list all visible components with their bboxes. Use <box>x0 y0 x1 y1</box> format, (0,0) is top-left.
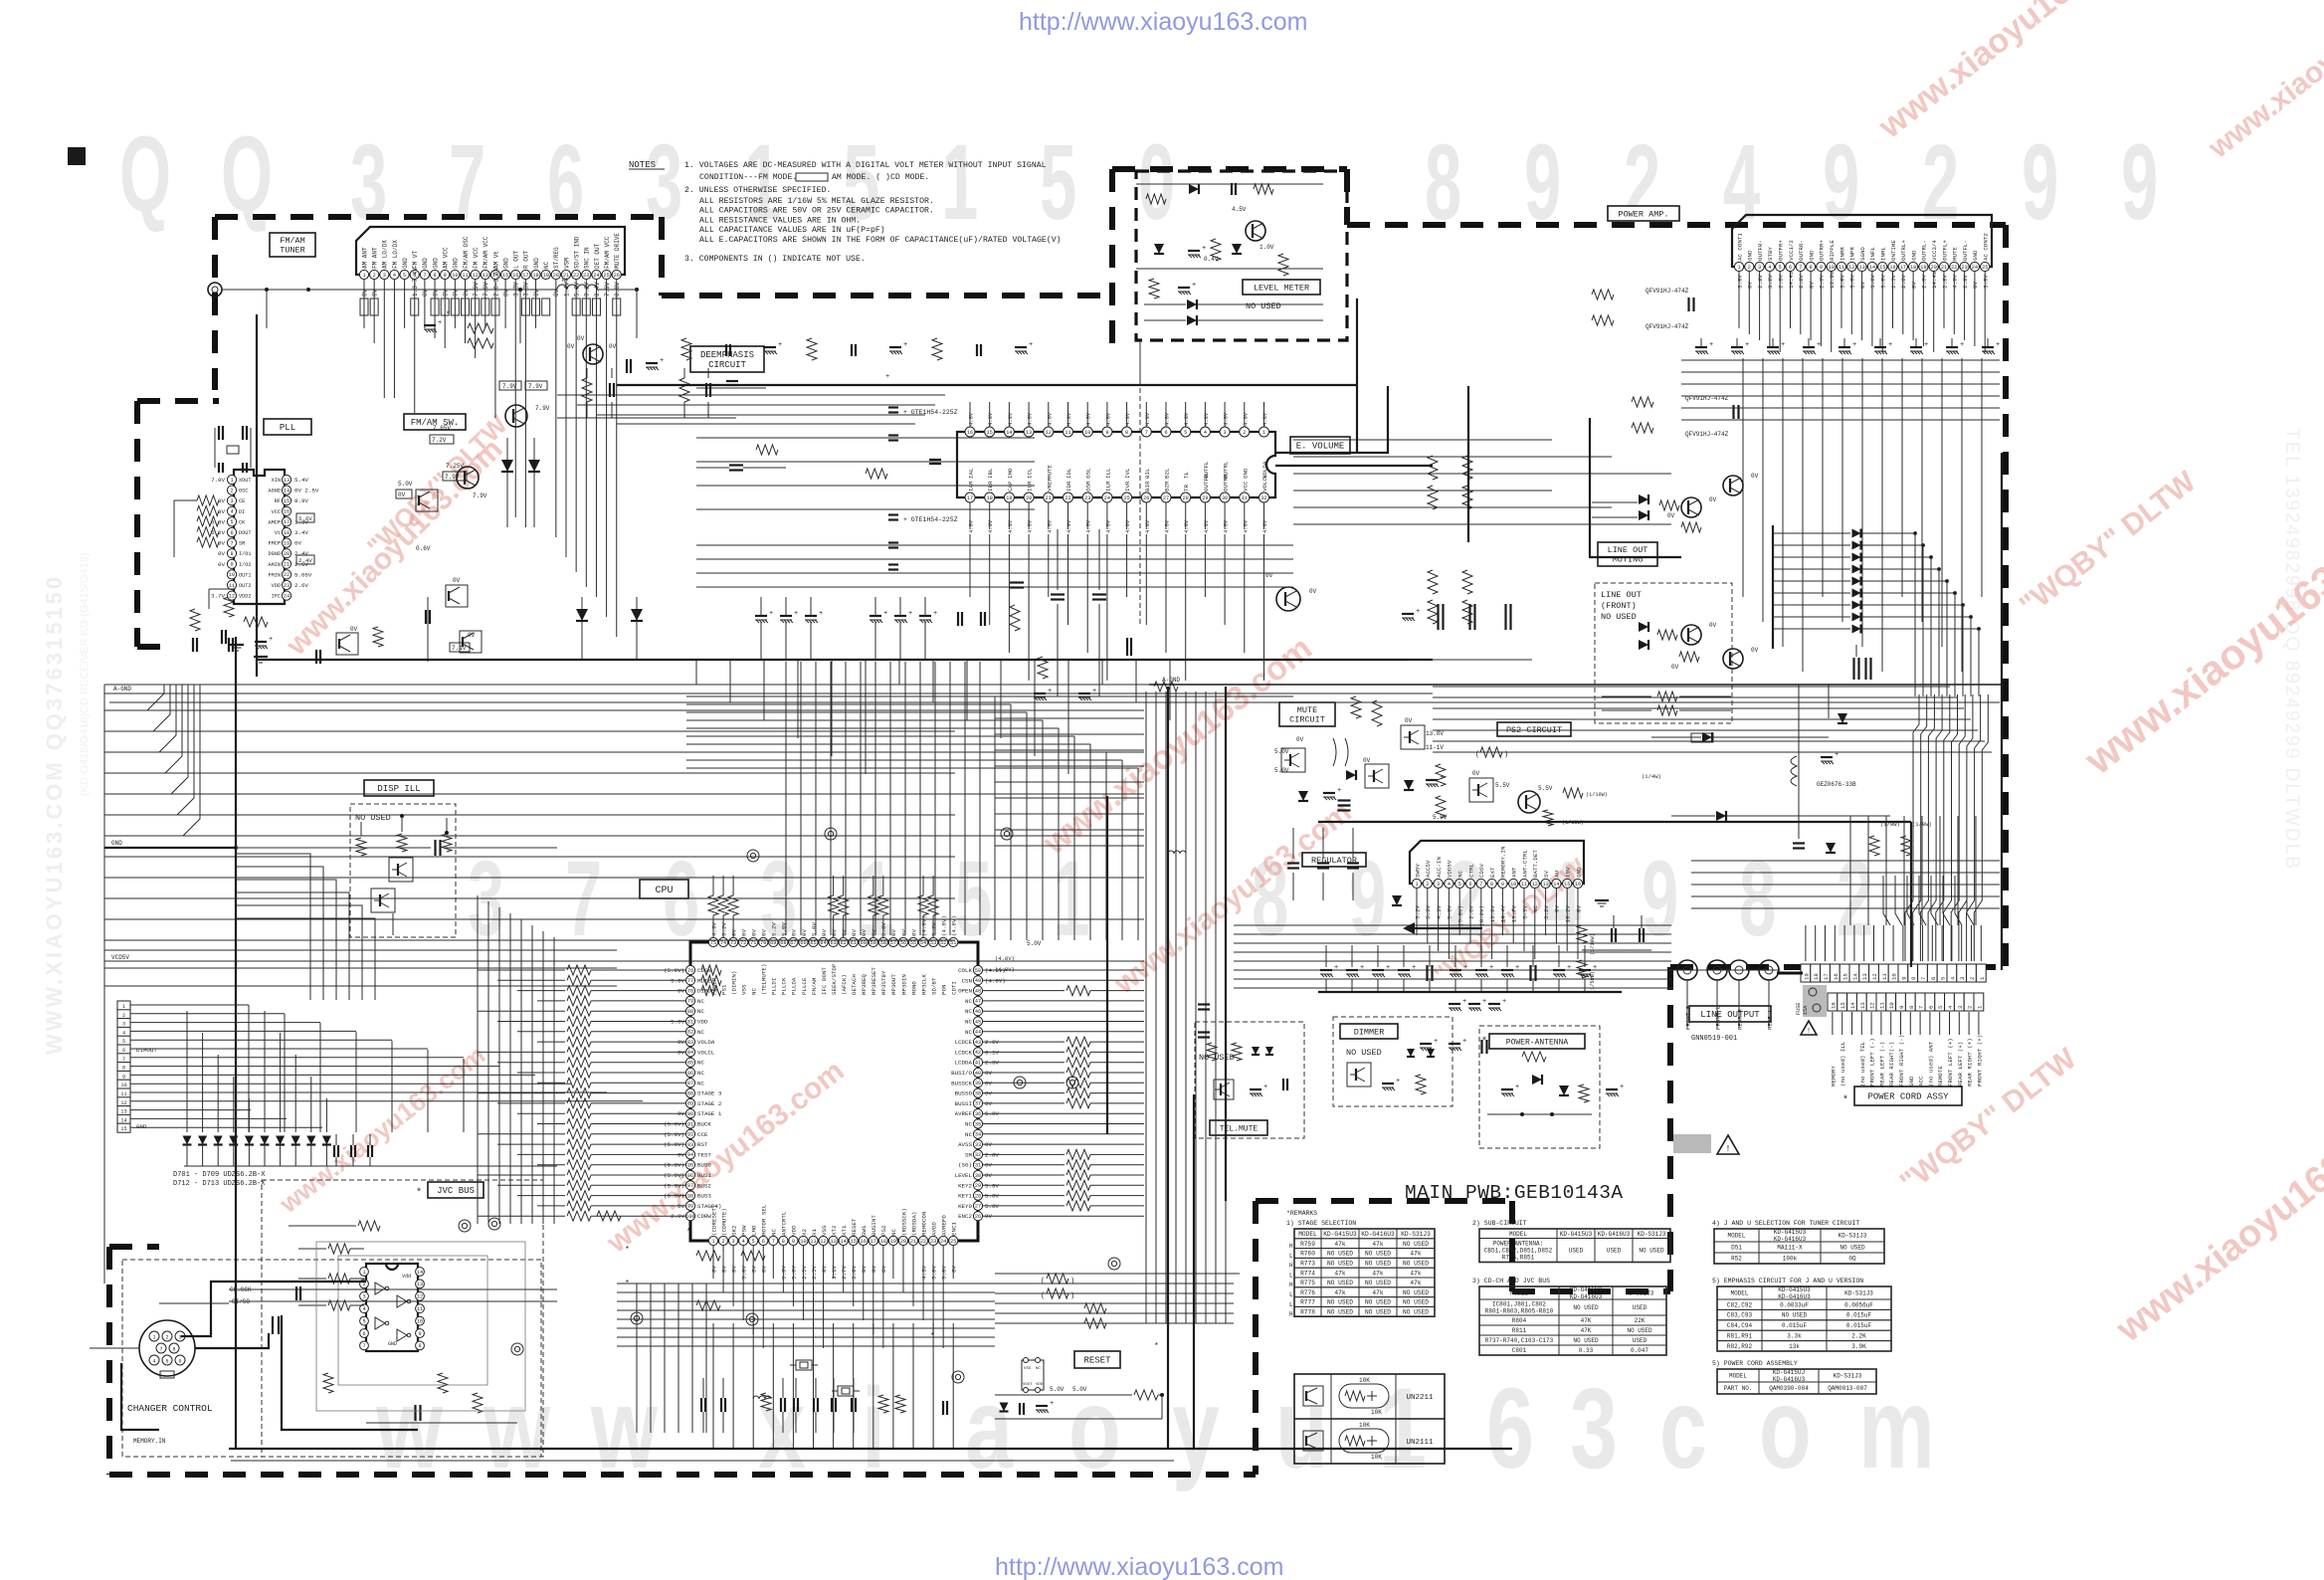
svg-text:VCC: VCC <box>1242 481 1249 492</box>
svg-text:5.2V: 5.2V <box>771 922 778 936</box>
svg-text:92: 92 <box>687 1132 693 1138</box>
svg-text:CHANGER CONTROL: CHANGER CONTROL <box>127 1403 213 1414</box>
svg-text:CAP: CAP <box>1007 481 1014 492</box>
svg-text:6: 6 <box>1930 977 1937 980</box>
svg-text:10K: 10K <box>1371 1454 1382 1461</box>
svg-text:RIPPLE: RIPPLE <box>1829 240 1836 261</box>
svg-text:VOUT: VOUT <box>1023 1383 1033 1387</box>
svg-text:10: 10 <box>1891 973 1898 980</box>
svg-text:11: 11 <box>462 273 468 279</box>
svg-text:2: 2 <box>230 488 233 494</box>
svg-text:0V: 0V <box>1296 736 1304 743</box>
svg-text:4.8V: 4.8V <box>1065 412 1072 426</box>
svg-text:67: 67 <box>790 940 796 946</box>
svg-text:KEY2: KEY2 <box>958 1182 972 1189</box>
svg-text:36: 36 <box>975 1111 981 1117</box>
svg-text:0.0033uF: 0.0033uF <box>1780 1301 1809 1308</box>
svg-text:22: 22 <box>573 273 579 279</box>
svg-text:14: 14 <box>417 1270 423 1276</box>
svg-text:DI: DI <box>239 509 245 515</box>
svg-text:(8.2V): (8.2V) <box>1478 905 1485 926</box>
svg-text:DOUT: DOUT <box>239 530 251 536</box>
svg-text:VREF: VREF <box>1046 478 1053 492</box>
svg-text:5.2V: 5.2V <box>930 922 937 936</box>
svg-text:RF: RF <box>275 498 281 504</box>
svg-text:R OUT: R OUT <box>523 251 530 269</box>
svg-text:47k: 47k <box>1372 1289 1383 1296</box>
svg-text:SW5V: SW5V <box>1414 864 1421 878</box>
svg-text:7.2V: 7.2V <box>432 437 447 444</box>
svg-text:o: o <box>1759 1364 1812 1492</box>
svg-text:KD-G415U3: KD-G415U3 <box>1560 1231 1593 1238</box>
svg-text:2.8V: 2.8V <box>1798 275 1805 289</box>
svg-text:61: 61 <box>851 940 857 946</box>
svg-text:18: 18 <box>532 273 538 279</box>
svg-text:3: 3 <box>350 123 387 243</box>
svg-text:84: 84 <box>687 1050 693 1056</box>
svg-text:+: + <box>1463 964 1467 972</box>
svg-text:GNN0519-001: GNN0519-001 <box>1691 1035 1737 1043</box>
svg-text:3.1V: 3.1V <box>831 1265 838 1279</box>
svg-text:7: 7 <box>1799 265 1802 271</box>
svg-text:10: 10 <box>1510 882 1516 888</box>
svg-text:CK: CK <box>239 519 246 525</box>
svg-text:VDD2: VDD2 <box>239 594 251 600</box>
svg-text:10.2V: 10.2V <box>1565 904 1572 922</box>
svg-text:UN2111: UN2111 <box>1406 1439 1434 1447</box>
svg-text:+: + <box>1386 964 1390 972</box>
svg-text:0V: 0V <box>801 929 808 936</box>
svg-text:NC: NC <box>890 1229 897 1236</box>
svg-text:22: 22 <box>1951 265 1957 271</box>
svg-text:NO USED: NO USED <box>1601 612 1637 622</box>
svg-text:(TELMUTE): (TELMUTE) <box>761 964 768 995</box>
svg-text:NC: NC <box>965 1121 972 1128</box>
svg-text:(1/8W): (1/8W) <box>1880 821 1900 828</box>
svg-text:(no used) ANT: (no used) ANT <box>1927 1041 1934 1086</box>
svg-text:DIMMER: DIMMER <box>1354 1027 1385 1037</box>
svg-text:m: m <box>1858 1364 1935 1492</box>
svg-text:0V: 0V <box>761 929 768 936</box>
svg-text:NC: NC <box>697 998 704 1005</box>
svg-text:+: + <box>1502 998 1506 1006</box>
svg-text:4.0V: 4.0V <box>1952 275 1959 289</box>
svg-text:XT2: XT2 <box>831 1225 838 1236</box>
svg-text:+: + <box>1192 282 1196 290</box>
svg-text:REMOTE: REMOTE <box>1937 1066 1944 1086</box>
svg-text:+: + <box>1852 341 1856 349</box>
svg-text:14.4V: 14.4V <box>1931 271 1938 289</box>
svg-text:SD/ST IND: SD/ST IND <box>573 236 580 269</box>
svg-text:5.2V: 5.2V <box>720 922 727 936</box>
svg-text:5V: 5V <box>1543 871 1550 878</box>
svg-text:ONTIME: ONTIME <box>1890 240 1897 261</box>
svg-text:4.8V: 4.8V <box>1065 519 1072 533</box>
svg-text:MP3CLK: MP3CLK <box>920 974 927 995</box>
svg-text:FRONT R: FRONT R <box>1685 1005 1692 1030</box>
svg-text:FM ANT: FM ANT <box>371 247 378 269</box>
svg-text:3.0V: 3.0V <box>1869 275 1876 289</box>
svg-text:ALL RESISTORS ARE 1/16W 5% MET: ALL RESISTORS ARE 1/16W 5% METAL GLAZE R… <box>699 196 934 206</box>
svg-text:4) J AND U SELECTION FOR TUNER: 4) J AND U SELECTION FOR TUNER CIRCUIT <box>1712 1220 1859 1227</box>
svg-text:0V: 0V <box>398 492 406 498</box>
svg-text:1: 1 <box>1262 430 1265 436</box>
svg-text:B2L: B2L <box>1164 468 1171 479</box>
svg-text:9: 9 <box>1900 977 1907 980</box>
svg-text:AM MODE. ( )CD MODE.: AM MODE. ( )CD MODE. <box>832 172 929 182</box>
svg-text:13: 13 <box>483 273 488 279</box>
svg-text:D701 - D709 UDZS6.2B-X: D701 - D709 UDZS6.2B-X <box>173 1171 266 1179</box>
svg-text:11: 11 <box>1881 973 1888 980</box>
svg-text:13.8V: 13.8V <box>1426 730 1444 737</box>
svg-text:0V: 0V <box>361 289 368 296</box>
svg-text:FRONT RIGHT (+): FRONT RIGHT (+) <box>1976 1035 1983 1086</box>
svg-text:AM ANT: AM ANT <box>361 247 368 269</box>
svg-text:0V: 0V <box>453 577 461 584</box>
svg-text:4.8V: 4.8V <box>1085 412 1092 426</box>
svg-text:R775: R775 <box>1300 1280 1315 1286</box>
svg-text:VCC: VCC <box>272 509 281 515</box>
svg-text:SK2: SK2 <box>730 1225 737 1236</box>
svg-text:INRL: INRL <box>1880 247 1887 261</box>
svg-text:4.8V: 4.8V <box>1046 519 1053 533</box>
svg-text:4.8V: 4.8V <box>1261 519 1268 533</box>
svg-text:+: + <box>1337 787 1341 795</box>
svg-text:11: 11 <box>1521 882 1527 888</box>
svg-text:FM/AM: FM/AM <box>280 236 305 246</box>
svg-text:2.8V: 2.8V <box>1900 275 1907 289</box>
svg-text:14: 14 <box>1006 430 1012 436</box>
svg-text:47K: 47K <box>1581 1327 1592 1334</box>
svg-text:PLLDA: PLLDA <box>791 977 798 995</box>
svg-text:0.047: 0.047 <box>1631 1347 1648 1354</box>
svg-text:47k: 47k <box>1410 1251 1421 1258</box>
svg-text:LCDCK: LCDCK <box>955 1049 973 1056</box>
svg-text:OUT1: OUT1 <box>239 572 251 578</box>
svg-text:5-8V: 5-8V <box>1447 904 1453 918</box>
svg-text:47K: 47K <box>1581 1317 1592 1324</box>
svg-text:56: 56 <box>900 940 906 946</box>
svg-text:PS2: PS2 <box>880 1225 887 1236</box>
svg-text:RST: RST <box>697 1141 708 1148</box>
svg-text:MEMORY: MEMORY <box>1830 1066 1837 1086</box>
svg-text:9: 9 <box>1501 882 1504 888</box>
svg-text:GND: GND <box>502 258 509 269</box>
svg-text:FM/AM OSC: FM/AM OSC <box>463 236 470 269</box>
svg-text:QFV91HJ-474Z: QFV91HJ-474Z <box>1646 288 1689 295</box>
svg-text:77: 77 <box>687 978 693 984</box>
svg-text:VCD5V: VCD5V <box>111 954 129 961</box>
svg-text:IDL: IDL <box>1065 468 1072 479</box>
svg-text:BUS0: BUS0 <box>697 1162 711 1169</box>
svg-text:STAGE 2: STAGE 2 <box>697 1100 722 1107</box>
svg-text:81: 81 <box>687 1019 693 1025</box>
svg-text:USED: USED <box>1633 1304 1647 1311</box>
svg-text:15: 15 <box>1840 1002 1846 1009</box>
svg-text:SW1: SW1 <box>861 1225 868 1236</box>
svg-text:FMCP: FMCP <box>269 541 281 547</box>
svg-text:NO USED: NO USED <box>1365 1260 1391 1267</box>
svg-text:AC CONT2: AC CONT2 <box>1983 233 1990 261</box>
svg-text:OUTFR-: OUTFR- <box>1757 240 1764 261</box>
svg-text:MODEL: MODEL <box>1727 1233 1745 1240</box>
svg-text:REAR LEFT (+): REAR LEFT (+) <box>1957 1042 1964 1086</box>
svg-text:2.6V: 2.6V <box>1467 904 1474 918</box>
svg-text:79: 79 <box>687 999 693 1005</box>
svg-text:R759: R759 <box>1300 1241 1315 1248</box>
svg-text:MODEL: MODEL <box>1509 1231 1527 1238</box>
svg-text:MP3REQ: MP3REQ <box>861 974 868 995</box>
svg-text:GND: GND <box>533 258 540 269</box>
svg-text:6: 6 <box>230 530 233 536</box>
svg-text:16: 16 <box>967 430 973 436</box>
svg-text:4.8V: 4.8V <box>1124 412 1131 426</box>
svg-text:5.0V: 5.0V <box>791 1265 798 1279</box>
svg-text:IVL: IVL <box>1124 468 1131 479</box>
svg-text:4.8V: 4.8V <box>1242 519 1249 533</box>
svg-text:Vdd: Vdd <box>402 1274 411 1280</box>
svg-text:A-GND: A-GND <box>113 686 131 692</box>
svg-text:5.2V: 5.2V <box>1543 904 1550 918</box>
svg-text:INRR: INRR <box>1839 247 1845 261</box>
svg-text:NC: NC <box>965 1019 972 1026</box>
svg-text:53: 53 <box>930 940 936 946</box>
svg-text:ALL RESISTANCE VALUES ARE IN O: ALL RESISTANCE VALUES ARE IN OHM. <box>699 216 861 225</box>
svg-text:46: 46 <box>975 1009 981 1015</box>
svg-text:2.5V: 2.5V <box>801 1265 808 1279</box>
svg-text:71: 71 <box>750 940 756 946</box>
svg-text:+: + <box>1412 964 1416 972</box>
svg-text:15: 15 <box>1842 973 1849 980</box>
svg-text:+: + <box>1263 1084 1267 1091</box>
svg-text:96: 96 <box>687 1173 693 1179</box>
svg-text:BATT.DET: BATT.DET <box>1532 850 1539 878</box>
svg-text:13: 13 <box>1026 430 1032 436</box>
svg-text:4.8V: 4.8V <box>968 412 975 426</box>
svg-text:4.8V: 4.8V <box>1144 412 1151 426</box>
svg-text:5) EMPHASIS CIRCUIT FOR J AND: 5) EMPHASIS CIRCUIT FOR J AND U VERSION <box>1712 1278 1863 1284</box>
svg-text:NO USED: NO USED <box>1365 1308 1391 1315</box>
svg-text:+: + <box>1202 245 1206 253</box>
svg-text:*: * <box>930 1332 935 1341</box>
svg-text:47k: 47k <box>1334 1241 1345 1248</box>
svg-text:ACC: ACC <box>1918 1076 1925 1086</box>
svg-text:C82,C92: C82,C92 <box>1727 1301 1753 1308</box>
svg-text:PON: PON <box>940 984 947 995</box>
svg-text:12: 12 <box>1532 882 1538 888</box>
svg-text:19: 19 <box>543 273 549 279</box>
svg-text:76: 76 <box>687 968 693 974</box>
svg-text:BUSINT: BUSINT <box>871 1215 877 1236</box>
svg-text:(4.8V): (4.8V) <box>951 915 958 936</box>
svg-text:NO USED: NO USED <box>1246 301 1281 311</box>
svg-text:3.0V: 3.0V <box>1849 275 1856 289</box>
svg-text:AGND: AGND <box>269 489 281 494</box>
svg-text:+: + <box>438 319 442 327</box>
svg-text:0V: 0V <box>294 540 301 547</box>
svg-text:15: 15 <box>1564 882 1570 888</box>
svg-text:COLK: COLK <box>958 967 972 974</box>
svg-text:!: ! <box>1807 1028 1811 1036</box>
svg-text:24: 24 <box>593 273 599 279</box>
svg-text:ACC5V: ACC5V <box>1425 860 1432 878</box>
svg-text:54: 54 <box>920 940 926 946</box>
svg-text:http://www.xiaoyu163.com: http://www.xiaoyu163.com <box>995 1553 1283 1580</box>
svg-text:2: 2 <box>721 1239 724 1245</box>
svg-text:XOUT: XOUT <box>239 478 251 484</box>
svg-text:21: 21 <box>284 562 290 568</box>
svg-text:TEL 13924982998 QQ 89249299 D: TEL 13924982998 QQ 89249299 DLTWDLB <box>2281 428 2302 871</box>
svg-text:MUTE: MUTE <box>1297 705 1317 715</box>
svg-text:2.6V: 2.6V <box>294 582 308 589</box>
svg-text:6: 6 <box>1164 430 1167 436</box>
svg-text:37: 37 <box>975 1101 981 1107</box>
svg-text:GND: GND <box>1910 250 1917 261</box>
svg-text:DET OUT: DET OUT <box>594 243 601 269</box>
svg-text:MP3OUT: MP3OUT <box>890 974 897 995</box>
svg-text:4: 4 <box>1768 265 1771 271</box>
svg-text:IFC: IFC <box>272 594 281 600</box>
svg-text:1.0V: 1.0V <box>1259 244 1274 251</box>
svg-text:2.8V: 2.8V <box>1921 275 1928 289</box>
svg-text:R801-R803,R805-R810: R801-R803,R805-R810 <box>1485 1308 1554 1315</box>
svg-text:OUT2: OUT2 <box>239 583 251 589</box>
svg-text:SNC IN: SNC IN <box>584 247 591 269</box>
svg-text:R765,R851: R765,R851 <box>1502 1255 1535 1262</box>
svg-text:XIN: XIN <box>272 478 281 484</box>
svg-text:+: + <box>1360 964 1364 972</box>
svg-text:2: 2 <box>1426 882 1429 888</box>
svg-text:+: + <box>1745 341 1749 349</box>
svg-text:5: 5 <box>165 1359 168 1365</box>
svg-text:REAR L: REAR L <box>1767 1009 1774 1030</box>
svg-text:13.8V: 13.8V <box>1489 904 1496 922</box>
svg-text:23: 23 <box>1961 265 1967 271</box>
svg-text:KD-S31J3: KD-S31J3 <box>1401 1231 1431 1238</box>
svg-text:RESET: RESET <box>851 1218 858 1236</box>
svg-text:4.8V: 4.8V <box>1007 519 1014 533</box>
svg-text:15: 15 <box>502 273 508 279</box>
svg-text:17: 17 <box>522 273 528 279</box>
svg-text:2.5V: 2.5V <box>1890 275 1897 289</box>
svg-text:NO USED: NO USED <box>1199 1053 1235 1063</box>
svg-text:1: 1 <box>941 123 978 243</box>
svg-text:72: 72 <box>740 940 746 946</box>
svg-text:NC: NC <box>697 1080 704 1086</box>
svg-text:FM VT: FM VT <box>412 251 419 269</box>
svg-text:5: 5 <box>1458 882 1461 888</box>
svg-text:R774: R774 <box>1300 1270 1315 1277</box>
svg-text:12: 12 <box>229 593 235 599</box>
svg-text:0: 0 <box>1138 123 1175 243</box>
svg-text:4.8V: 4.8V <box>1027 412 1034 426</box>
svg-text:7: 7 <box>1145 430 1148 436</box>
svg-text:OUTRR+: OUTRR+ <box>1819 240 1826 261</box>
svg-text:INFR: INFR <box>1849 247 1856 261</box>
svg-text:89: 89 <box>687 1101 693 1107</box>
svg-text:0V: 0V <box>218 540 225 547</box>
svg-text:5: 5 <box>752 1239 755 1245</box>
svg-text:0V: 0V <box>791 929 798 936</box>
svg-text:GND: GND <box>432 258 439 269</box>
svg-text:18: 18 <box>880 1239 886 1245</box>
svg-text:LINE OUTPUT: LINE OUTPUT <box>1700 1010 1760 1020</box>
svg-text:7.1V: 7.1V <box>452 645 467 652</box>
svg-text:13: 13 <box>1542 882 1548 888</box>
svg-text:L: L <box>1289 1272 1293 1279</box>
svg-text:4.8V: 4.8V <box>1124 519 1131 533</box>
svg-text:10: 10 <box>800 1239 806 1245</box>
svg-text:3: 3 <box>1570 1364 1618 1492</box>
svg-text:): ) <box>1504 751 1508 759</box>
svg-text:NC: NC <box>543 261 550 269</box>
svg-text:+: + <box>660 357 664 365</box>
svg-text:MUTE DRIVE: MUTE DRIVE <box>614 233 621 269</box>
svg-text:*: * <box>686 1228 691 1237</box>
svg-text:ICR: ICR <box>1027 481 1034 492</box>
svg-text:CIRCUIT: CIRCUIT <box>708 360 746 370</box>
svg-text:24: 24 <box>284 593 290 599</box>
svg-text:+: + <box>1489 964 1493 972</box>
svg-text:78: 78 <box>687 988 693 994</box>
svg-text:0V: 0V <box>371 289 378 296</box>
svg-text:+: + <box>1396 1078 1400 1086</box>
svg-text:GND: GND <box>422 258 429 269</box>
svg-text:2.8V: 2.8V <box>1962 275 1969 289</box>
svg-text:OUTFR: OUTFR <box>1203 474 1210 492</box>
svg-text:CD5V: CD5V <box>1478 864 1485 878</box>
svg-text:X1: X1 <box>811 1229 818 1236</box>
svg-text:0V: 0V <box>1405 717 1413 724</box>
svg-text:(4.8V): (4.8V) <box>920 915 927 936</box>
svg-text:L OUT: L OUT <box>513 251 520 269</box>
svg-text:*: * <box>895 1238 900 1247</box>
svg-text:5.3V: 5.3V <box>1425 904 1432 918</box>
svg-text:CTRL: CTRL <box>1467 864 1474 878</box>
svg-text:MODEL: MODEL <box>1729 1373 1747 1380</box>
svg-text:FM/AM VCC: FM/AM VCC <box>604 236 611 269</box>
svg-text:28: 28 <box>975 1193 981 1199</box>
svg-text:NO USED: NO USED <box>1327 1251 1353 1258</box>
svg-text:13.7V: 13.7V <box>1511 904 1518 922</box>
svg-text:25: 25 <box>950 1239 956 1245</box>
svg-text:27: 27 <box>1163 495 1169 501</box>
svg-text:VDD: VDD <box>272 583 281 589</box>
svg-text:93: 93 <box>687 1142 693 1148</box>
svg-text:28: 28 <box>1183 495 1189 501</box>
svg-text:4.3V: 4.3V <box>920 1265 927 1279</box>
svg-text:14: 14 <box>1851 973 1858 980</box>
svg-text:ILR: ILR <box>1104 481 1111 492</box>
svg-text:FRONT RIGHT (-): FRONT RIGHT (-) <box>1898 1035 1905 1086</box>
svg-text:3: 3 <box>1437 882 1440 888</box>
svg-text:9: 9 <box>1898 1006 1905 1009</box>
svg-text:5.0V: 5.0V <box>851 1265 858 1279</box>
svg-text:VOLCL: VOLCL <box>1261 474 1268 492</box>
svg-text:ENC2: ENC2 <box>958 1213 972 1220</box>
svg-text:ALL CAPACITANCE VALUES ARE IN: ALL CAPACITANCE VALUES ARE IN uF(P=pF) <box>699 225 885 235</box>
svg-text:AVREFO: AVREFO <box>940 1215 947 1236</box>
svg-text:FM/AM VCC: FM/AM VCC <box>483 236 489 269</box>
svg-text:+: + <box>1092 688 1096 695</box>
svg-text:3. COMPONENTS IN () INDICATE N: 3. COMPONENTS IN () INDICATE NOT USE. <box>684 254 866 264</box>
svg-text:2.2K: 2.2K <box>1851 1333 1866 1340</box>
svg-text:+: + <box>908 610 912 618</box>
svg-text:NO USED: NO USED <box>1573 1337 1599 1344</box>
svg-text:11: 11 <box>1839 265 1844 271</box>
svg-text:45: 45 <box>975 1019 981 1025</box>
svg-text:5: 5 <box>1779 265 1782 271</box>
